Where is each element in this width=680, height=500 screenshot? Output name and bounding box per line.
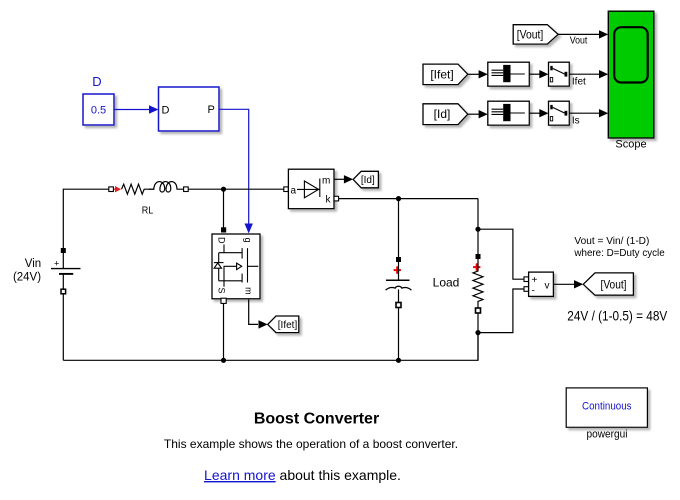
svg-text:g: g (243, 238, 253, 243)
DC source Vin battery symbol (51, 253, 81, 289)
svg-text:D: D (162, 105, 170, 117)
wire V- sense (478, 289, 524, 333)
svg-text:This example shows the operati: This example shows the operation of a bo… (164, 437, 458, 451)
svg-text:RL: RL (142, 204, 154, 216)
load resistor polarity mark (473, 263, 480, 270)
capacitor C terminal + (396, 257, 401, 262)
wire Ifet to mean1 (468, 70, 488, 78)
subtitle description (164, 437, 458, 451)
wire rate1 to scope (569, 70, 608, 88)
capacitor C symbol (386, 262, 412, 303)
voltage measurement input + port (524, 277, 529, 282)
wire diode k to output rail (339, 198, 478, 200)
MOSFET block Q1 (212, 234, 260, 299)
note 24V result (567, 308, 668, 324)
svg-text:D: D (92, 74, 101, 89)
wire mean1 to rate1 (529, 70, 548, 78)
series RL branch right port (184, 187, 189, 192)
bottom rail wire (63, 333, 478, 361)
wire v output to Vout goto (553, 280, 583, 288)
wire P to MOSFET gate (blue) (219, 109, 253, 233)
svg-text:[Vout]: [Vout] (601, 278, 627, 292)
series RL branch left port (109, 187, 114, 192)
svg-text:24V / (1-0.5) = 48V: 24V / (1-0.5) = 48V (567, 308, 668, 324)
svg-text:P: P (208, 104, 215, 116)
mean block M2 (488, 101, 530, 125)
wire capacitor bottom (398, 308, 400, 361)
wire Vin bottom (62, 294, 64, 360)
node B junction (capacitor top) (396, 196, 401, 201)
link Learn more sentence (204, 467, 401, 483)
diode block D1 (288, 169, 334, 209)
label powergui (587, 428, 628, 440)
svg-text:Continuous: Continuous (582, 401, 632, 413)
svg-text:Vout = Vin/ (1-D): Vout = Vin/ (1-D) (574, 235, 649, 247)
wire top-left rail (63, 189, 109, 248)
svg-text:m: m (322, 176, 330, 187)
diode cathode port (334, 196, 339, 201)
node A junction (221, 187, 226, 192)
from tag [Id] (423, 104, 468, 125)
DC source Vin terminal - (61, 289, 66, 294)
wire MOSFET source to bottom rail (223, 303, 225, 360)
wire diode m to Id goto (334, 175, 353, 183)
label Scope (615, 139, 646, 151)
bottom rail junction at MOSFET (221, 358, 226, 363)
svg-text:+: + (532, 275, 538, 286)
svg-text:Ifet: Ifet (572, 77, 586, 88)
wire rate2 to scope (569, 109, 608, 127)
resistor R of RL (122, 184, 155, 194)
wire Vout to scope (558, 30, 608, 46)
wire mean2 to rate2 (529, 109, 548, 117)
rate transition block RT1 (549, 62, 570, 86)
goto tag [Id] (353, 171, 378, 188)
wire load bottom (477, 313, 479, 360)
wire V+ sense (478, 229, 524, 279)
svg-text:0.5: 0.5 (91, 105, 106, 117)
load resistor symbol (473, 259, 483, 308)
svg-text:(24V): (24V) (13, 272, 41, 284)
svg-text:D: D (217, 237, 227, 244)
DC source Vin terminal + (61, 248, 66, 253)
svg-text:S: S (217, 287, 227, 293)
load resistor terminal - (476, 308, 481, 313)
svg-text:Learn more about this example.: Learn more about this example. (204, 467, 401, 483)
svg-text:m: m (244, 287, 254, 295)
node D junction (V- tap) (475, 330, 480, 335)
svg-text:[Id]: [Id] (361, 175, 375, 186)
svg-text:+: + (54, 259, 59, 269)
voltage measurement block VM (529, 272, 554, 296)
rate transition block RT2 (549, 101, 570, 125)
wire load top (477, 199, 479, 254)
title Boost Converter (254, 411, 379, 428)
svg-text:powergui: powergui (587, 428, 628, 440)
bottom rail junction at capacitor (396, 358, 401, 363)
svg-text:[Ifet]: [Ifet] (430, 67, 453, 81)
load resistor terminal + (476, 254, 481, 259)
voltage measurement input - port (524, 287, 529, 292)
wire capacitor top (398, 199, 400, 257)
MOSFET drain terminal (221, 227, 226, 232)
svg-text:Is: Is (572, 116, 580, 127)
svg-text:Scope: Scope (615, 139, 646, 151)
capacitor C terminal - (396, 303, 401, 308)
mean block M1 (488, 62, 530, 86)
wire MOSFET m output to Ifet goto (249, 300, 268, 329)
svg-text:v: v (545, 281, 550, 292)
label D (duty-cycle constant name) (92, 74, 101, 89)
label RL (142, 204, 154, 216)
MOSFET source terminal (221, 298, 226, 303)
svg-text:where: D=Duty cycle: where: D=Duty cycle (573, 247, 664, 259)
goto tag [Ifet] (268, 316, 299, 333)
svg-text:Vin: Vin (25, 258, 41, 270)
label Vin (24V) (13, 258, 41, 284)
svg-text:[Ifet]: [Ifet] (278, 320, 298, 331)
wire constant to PWM (115, 105, 159, 114)
svg-text:Load: Load (433, 276, 460, 290)
PWM generator block U1 (D->P) (159, 87, 220, 131)
goto tag [Vout] (583, 273, 633, 295)
wire Id to mean2 (468, 110, 488, 118)
svg-text:[Id]: [Id] (434, 107, 451, 121)
scope block (608, 11, 654, 138)
inductor L of RL (149, 182, 184, 192)
constant block 0.5 (83, 94, 114, 125)
node C junction (V+ tap) (475, 227, 480, 232)
wire RL to node A (188, 188, 284, 190)
wire node A down to MOSFET drain (223, 189, 225, 229)
svg-text:Boost Converter: Boost Converter (254, 411, 379, 428)
capacitor C polarity mark (394, 266, 401, 273)
diode anode port (284, 187, 289, 192)
red orientation arrow of RL branch (114, 186, 121, 192)
svg-text:-: - (532, 286, 535, 297)
svg-text:[Vout]: [Vout] (517, 27, 544, 41)
from tag [Vout] (513, 25, 558, 44)
svg-text:a: a (291, 185, 297, 196)
svg-text:Vout: Vout (570, 35, 588, 46)
label Load (433, 276, 460, 290)
from tag [Ifet] (423, 64, 468, 85)
powergui block (566, 388, 647, 427)
note Vout equation (573, 235, 664, 259)
